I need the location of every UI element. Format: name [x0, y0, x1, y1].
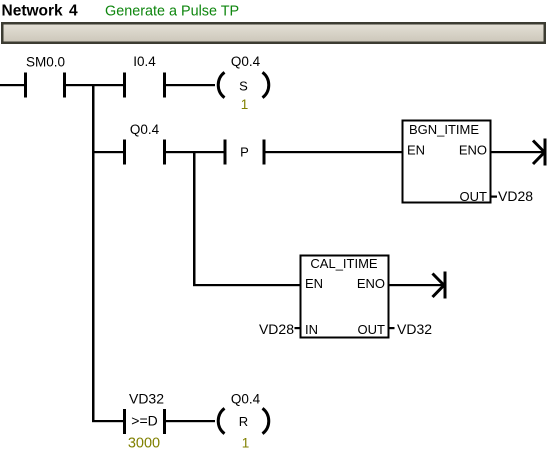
wire: CAL_ITIME OUT tick	[389, 327, 395, 329]
contact VD32 >=D compare, value 3000	[123, 391, 166, 452]
wire: left rail to contact SM0.0	[0, 84, 25, 86]
wire: BGN_ITIME ENO output	[490, 151, 544, 153]
svg-text:>=D: >=D	[131, 413, 157, 429]
svg-text:I0.4: I0.4	[133, 54, 156, 69]
wire: rung 2 branch to CAL_ITIME EN input	[193, 284, 300, 286]
svg-text:OUT: OUT	[460, 189, 488, 204]
wire: BGN_ITIME OUT tick	[490, 196, 497, 198]
svg-text:VD32: VD32	[397, 321, 432, 337]
junction: branch down from rung 1 at x=93	[92, 84, 95, 422]
svg-text:VD28: VD28	[498, 188, 533, 204]
svg-text:Generate a Pulse TP: Generate a Pulse TP	[105, 4, 239, 20]
wire: P contact to BGN_ITIME EN input	[266, 151, 403, 153]
contact I0.4 (normally open)	[123, 54, 166, 98]
svg-text:Q0.4: Q0.4	[130, 122, 160, 137]
svg-text:OUT: OUT	[358, 322, 386, 337]
svg-text:IN: IN	[305, 322, 318, 337]
svg-text:3000: 3000	[128, 436, 160, 452]
wire: SM0.0 to I0.4	[66, 84, 124, 86]
svg-text:ENO: ENO	[459, 143, 487, 158]
svg-text:CAL_ITIME: CAL_ITIME	[310, 256, 378, 271]
svg-text:EN: EN	[407, 143, 425, 158]
network separator bar	[1, 22, 546, 44]
svg-text:ENO: ENO	[357, 276, 385, 291]
svg-text:SM0.0: SM0.0	[26, 55, 65, 70]
svg-text:R: R	[239, 414, 248, 429]
svg-text:P: P	[240, 145, 249, 160]
svg-text:4: 4	[69, 3, 78, 20]
svg-text:Network: Network	[2, 3, 64, 20]
coil Q0.4 (S) set coil, value 1	[218, 54, 269, 112]
wire: Q0.4 to P contact	[166, 151, 226, 153]
contact SM0.0 (normally open)	[24, 55, 66, 98]
open branch arrow (rung 2 continuation)	[533, 139, 547, 166]
function box U1 BGN_ITIME	[403, 121, 491, 205]
contact Q0.4 (normally open)	[123, 122, 166, 165]
svg-text:1: 1	[242, 436, 250, 451]
wire: branch to contact Q0.4 on rung 2	[92, 151, 124, 153]
svg-text:VD32: VD32	[129, 391, 164, 407]
wire: I0.4 to set coil	[166, 84, 215, 86]
contact P (positive edge)	[224, 140, 266, 165]
function box U2 CAL_ITIME	[301, 256, 389, 338]
svg-text:VD28: VD28	[259, 321, 294, 337]
open branch arrow (rung 3 continuation)	[433, 272, 447, 299]
coil Q0.4 (R) reset coil, value 1	[218, 392, 269, 451]
wire: branch to compare contact on rung 4	[92, 420, 124, 422]
svg-text:Q0.4: Q0.4	[231, 392, 261, 407]
junction: branch down from rung 2 at x=194	[193, 151, 196, 286]
svg-text:S: S	[239, 79, 248, 94]
wire: compare contact to reset coil	[166, 420, 215, 422]
wire: CAL_ITIME IN tick	[295, 327, 301, 329]
svg-text:1: 1	[241, 97, 249, 112]
network header title "Network 4"	[2, 3, 79, 20]
svg-text:Q0.4: Q0.4	[231, 54, 261, 69]
svg-text:BGN_ITIME: BGN_ITIME	[409, 122, 479, 137]
wire: CAL_ITIME ENO output	[388, 284, 444, 286]
svg-text:EN: EN	[305, 276, 323, 291]
